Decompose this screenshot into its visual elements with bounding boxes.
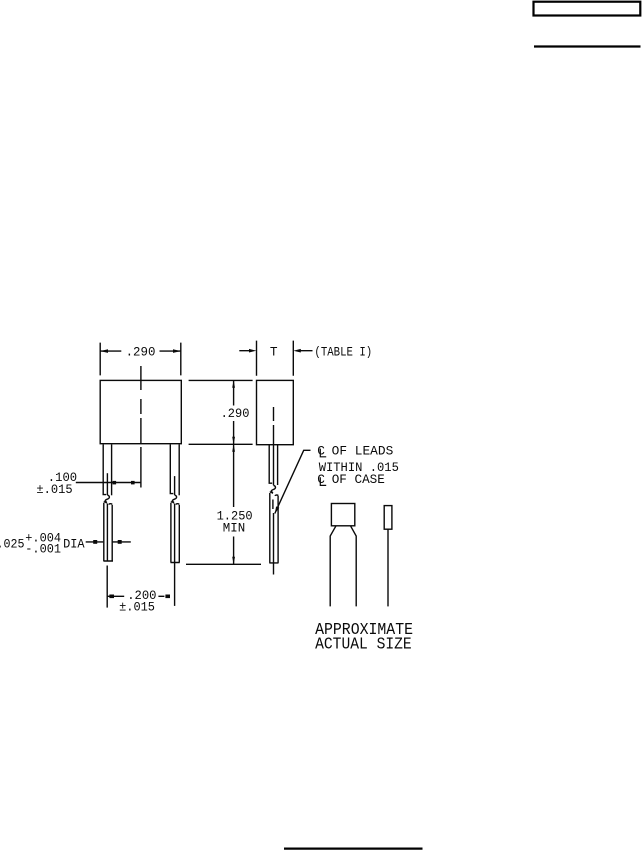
svg-text:.290: .290 <box>221 406 250 421</box>
svg-text:C: C <box>317 472 325 487</box>
svg-text:(TABLE I): (TABLE I) <box>314 345 372 360</box>
svg-text:MIN: MIN <box>223 521 245 536</box>
svg-text:.290: .290 <box>126 345 156 360</box>
svg-text:T: T <box>270 345 278 360</box>
svg-text:OF LEADS: OF LEADS <box>332 443 394 458</box>
svg-text:-.001: -.001 <box>25 542 61 557</box>
svg-text:C: C <box>317 443 325 458</box>
svg-text:±.015: ±.015 <box>119 600 155 615</box>
svg-text:ACTUAL SIZE: ACTUAL SIZE <box>315 636 412 654</box>
svg-text:DIA: DIA <box>63 537 85 552</box>
svg-text:OF CASE: OF CASE <box>332 472 386 487</box>
svg-text:.025: .025 <box>0 537 25 552</box>
svg-text:±.015: ±.015 <box>36 482 72 497</box>
